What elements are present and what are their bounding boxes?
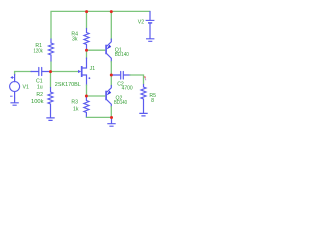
- ground bottom: [107, 118, 115, 127]
- resistor R1: [49, 39, 54, 61]
- node junction C1 input: [49, 70, 52, 73]
- svg-text:3k: 3k: [72, 36, 78, 42]
- svg-text:R3: R3: [71, 99, 78, 105]
- ground R5: [139, 113, 147, 116]
- wire C2 to R5: [130, 75, 144, 85]
- svg-text:V2: V2: [138, 20, 144, 26]
- svg-text:R2: R2: [36, 92, 43, 98]
- svg-text:2SK170BL: 2SK170BL: [55, 82, 81, 88]
- wire top rail: [51, 11, 150, 39]
- resistor R4: [71, 29, 89, 51]
- node junction R4 J1 Q1 base: [85, 49, 88, 52]
- svg-text:J1: J1: [90, 66, 96, 72]
- node junction output: [110, 74, 113, 77]
- wire Q1 base: [87, 49, 105, 51]
- node junction R4 top: [85, 10, 88, 13]
- ground R2: [46, 118, 54, 121]
- resistor R2: [31, 72, 53, 118]
- ground V1: [10, 98, 18, 105]
- svg-text:C1: C1: [36, 79, 43, 85]
- transistor Q2 BD140: [106, 75, 127, 118]
- svg-text:8: 8: [151, 98, 154, 104]
- node junction J1 source Q2 base: [85, 95, 88, 98]
- svg-text:1u: 1u: [37, 85, 43, 91]
- svg-text:100k: 100k: [31, 99, 44, 105]
- node junction Q1 top: [110, 10, 113, 13]
- resistor R3: [71, 96, 89, 117]
- ground V2: [146, 39, 154, 42]
- svg-text:BD140: BD140: [114, 100, 127, 106]
- wire J1 source down: [86, 85, 88, 96]
- battery V2: [138, 12, 155, 39]
- probe arrow red: [144, 76, 146, 78]
- wire bottom: [86, 116, 111, 118]
- jfet J1: [55, 50, 95, 88]
- transistor Q1 BD140: [106, 12, 129, 76]
- svg-text:V1: V1: [23, 84, 29, 90]
- svg-text:4700: 4700: [122, 86, 133, 92]
- svg-text:120k: 120k: [34, 48, 44, 54]
- capacitor C2: [112, 72, 133, 92]
- wire Q2 base: [86, 95, 104, 97]
- voltage source V1: [10, 75, 29, 99]
- resistor R5: [141, 85, 156, 113]
- capacitor C1: [31, 68, 50, 91]
- node junction bottom ground: [110, 116, 113, 119]
- svg-text:BD140: BD140: [115, 52, 129, 58]
- wire V1 to C1: [15, 72, 32, 76]
- wire R1 bottom to C1 junction: [50, 61, 52, 72]
- wire gate line: [51, 71, 79, 73]
- wire R4 top: [86, 12, 88, 29]
- svg-text:1k: 1k: [73, 106, 79, 112]
